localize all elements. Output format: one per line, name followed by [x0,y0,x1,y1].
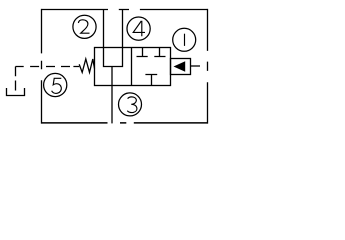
dashed drain vertical line [15,67,17,91]
flow path position 1: ports 2 and 4 joined to port 3 [104,48,123,67]
pilot actuator box with arrow (port 1 side) [171,59,191,75]
node port 2 label [73,15,96,38]
cartridge envelope left edge [41,9,43,124]
cartridge envelope bottom edge [42,122,208,124]
wire port 4 connection line [122,10,124,48]
tank symbol [7,88,25,96]
spring [79,59,94,72]
dashed drain pilot line to tank [16,66,80,68]
cartridge envelope right edge [207,9,209,124]
wire port 2 connection line [103,10,105,48]
node port 1 label [173,28,196,51]
valve body V1 (4-way 2-position spool valve) [95,48,171,86]
blocked port T2 (position 2, top right) [154,48,165,57]
wire port 3 connection line [111,67,113,124]
blocked port T3 (position 2, bottom) [145,75,157,86]
wire port 1 connection stub [191,65,201,67]
node port 4 label [127,17,150,40]
node port 3 label [119,93,142,116]
blocked port T1 (position 2, top left) [137,48,148,57]
cartridge envelope top edge [42,9,208,11]
node port 5 label [44,73,67,96]
